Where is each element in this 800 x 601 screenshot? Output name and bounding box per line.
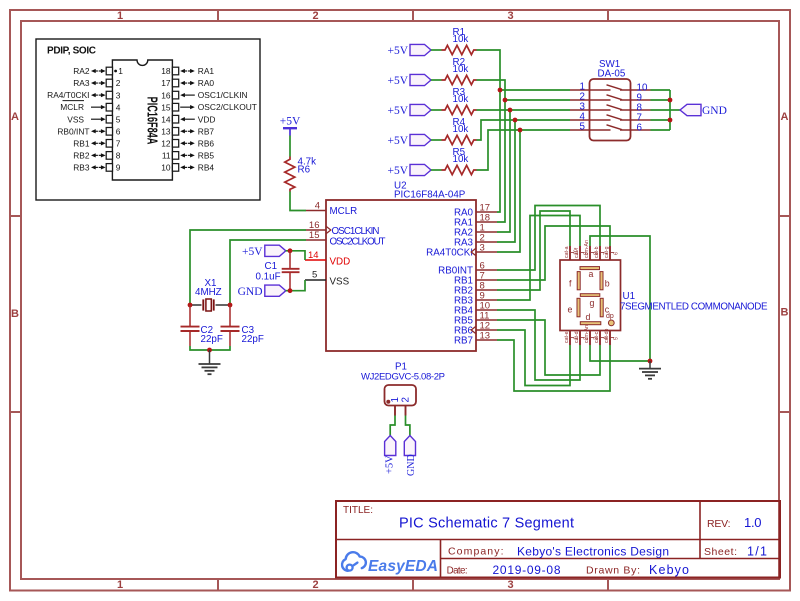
svg-text:cat-f: cat-f	[574, 247, 580, 258]
svg-text:Date:: Date:	[447, 566, 468, 577]
svg-text:B: B	[781, 307, 789, 319]
wire RA2 vertical	[497, 110, 510, 232]
svg-text:RB5: RB5	[198, 151, 215, 161]
svg-text:cat-b: cat-b	[594, 246, 600, 258]
svg-text:+5V: +5V	[242, 246, 263, 258]
+5V net flag (R2)	[387, 74, 431, 87]
wire RB1 to U1 cat-g	[497, 226, 610, 280]
svg-text:A: A	[11, 111, 19, 123]
wire R5 output	[477, 130, 571, 170]
wire R3 to SW1 pin 3 row	[477, 109, 571, 111]
svg-text:0.1uF: 0.1uF	[256, 272, 281, 283]
svg-text:4: 4	[315, 201, 320, 212]
svg-text:5: 5	[312, 270, 317, 281]
svg-text:22pF: 22pF	[242, 334, 264, 345]
U1 top pin 10 cat-a	[564, 246, 580, 260]
P1 pin 1	[390, 397, 401, 415]
U1 segment f	[569, 272, 580, 290]
svg-text:cat-dp: cat-dp	[604, 328, 610, 343]
U2 pin 6 RB0INT	[438, 261, 497, 277]
svg-text:RB7: RB7	[454, 336, 473, 347]
U1 top pin 7 cat-b	[594, 246, 610, 260]
svg-text:10k: 10k	[453, 124, 469, 135]
svg-text:22pF: 22pF	[201, 334, 223, 345]
svg-text:EasyEDA: EasyEDA	[368, 558, 438, 575]
svg-text:d: d	[586, 312, 591, 322]
svg-text:RA3: RA3	[73, 78, 90, 88]
U2 pin 17 RA0	[454, 203, 497, 219]
svg-text:+5V: +5V	[387, 135, 408, 147]
wire P1 pin2 to GND	[406, 416, 410, 436]
wire RB4 to U1 cat-d	[497, 310, 580, 380]
svg-text:PDIP, SOIC: PDIP, SOIC	[47, 46, 96, 57]
svg-text:PIC Schematic 7 Segment: PIC Schematic 7 Segment	[399, 516, 574, 532]
svg-text:C1: C1	[265, 261, 278, 272]
svg-text:WJ2EDGVC-5.08-2P: WJ2EDGVC-5.08-2P	[361, 372, 445, 383]
svg-text:7SEGMENTLED COMMONANODE: 7SEGMENTLED COMMONANODE	[620, 302, 768, 313]
wire RB0INT to U1 cat-b	[497, 206, 600, 271]
svg-text:com-An: com-An	[584, 325, 590, 343]
svg-text:14: 14	[161, 114, 171, 124]
svg-text:1: 1	[118, 66, 123, 76]
SW1 right pin numbers 10-6	[637, 83, 648, 134]
U1 bottom pin 3 com-An	[584, 325, 600, 345]
U1 segment c	[600, 298, 610, 317]
U1 top pin 6 cat-g	[604, 246, 620, 260]
junction dot crystal left	[188, 303, 193, 308]
wire OSC1CLKIN to crystal	[190, 230, 306, 304]
wire +5V to R1	[431, 49, 442, 51]
wire R4 output	[477, 120, 571, 140]
junction dot C1 top	[288, 248, 293, 253]
junction dots GND bus	[668, 98, 673, 123]
svg-text:a: a	[589, 269, 594, 279]
svg-text:4: 4	[116, 102, 121, 112]
svg-text:VSS: VSS	[330, 276, 350, 287]
U1 bottom pin 5 cat-dp	[604, 328, 620, 345]
svg-text:cat-c: cat-c	[594, 331, 600, 343]
+5V net flag (R4)	[387, 134, 431, 147]
resistor R2 10k	[442, 57, 477, 85]
svg-text:OSC1/CLKIN: OSC1/CLKIN	[198, 90, 248, 100]
svg-text:12: 12	[161, 139, 171, 149]
wire C2 C3 bottom	[190, 346, 230, 350]
svg-text:RA2: RA2	[73, 66, 90, 76]
svg-text:17: 17	[161, 78, 171, 88]
svg-text:cat-a: cat-a	[564, 246, 570, 258]
U2 pin 1 RA2	[454, 223, 497, 239]
svg-text:cat-e: cat-e	[564, 331, 570, 343]
U2 pin 18 RA1	[454, 213, 497, 229]
wire GND flag to VSS	[286, 280, 305, 291]
U2 pin 15 OSC2CLKOUT	[306, 230, 386, 247]
U1 reference labels	[620, 291, 768, 313]
svg-text:RB7: RB7	[198, 126, 215, 136]
+5V net flag (R3)	[387, 104, 431, 117]
svg-text:R6: R6	[298, 165, 311, 176]
junction dot anode ground	[648, 359, 653, 364]
svg-text:Kebyo's Electronics Design: Kebyo's Electronics Design	[517, 545, 669, 559]
svg-text:dp: dp	[606, 313, 614, 320]
svg-text:1: 1	[117, 10, 123, 22]
IC U2 PIC16F84A-04P	[326, 181, 476, 352]
svg-text:RA0: RA0	[198, 78, 215, 88]
svg-text:cat-g: cat-g	[604, 246, 610, 258]
U1 segment g	[580, 294, 600, 308]
connector P1 WJ2EDGVC-5.08-2P	[361, 362, 445, 406]
svg-text:RA4/T0CKI: RA4/T0CKI	[47, 90, 89, 100]
EasyEDA logo	[342, 552, 438, 575]
PIC16F84A package pinout diagram (PDIP, SOIC)	[36, 39, 260, 200]
svg-text:VDD: VDD	[198, 114, 216, 124]
svg-text:RA1: RA1	[198, 66, 215, 76]
wire P1 pin1 to +5V	[390, 416, 395, 436]
U1 bottom pin 4 cat-c	[594, 331, 610, 346]
svg-text:13: 13	[161, 126, 171, 136]
svg-text:B: B	[11, 308, 19, 320]
wire +5V flag to VDD	[286, 251, 305, 260]
svg-text:RB2: RB2	[73, 151, 90, 161]
svg-text:com-An: com-An	[584, 240, 590, 258]
resistor R4 10k	[442, 117, 477, 145]
svg-text:1/1: 1/1	[747, 545, 767, 559]
wire OSC2CLKOUT to crystal	[230, 240, 306, 304]
svg-text:RB1: RB1	[73, 138, 90, 148]
switch SW1 DA-05	[570, 59, 651, 141]
ground symbol (oscillator)	[199, 350, 221, 374]
svg-text:Sheet:: Sheet:	[704, 546, 737, 558]
svg-text:7: 7	[116, 139, 121, 149]
svg-text:MCLR: MCLR	[330, 206, 358, 217]
resistor R5 10k	[442, 147, 477, 175]
svg-text:6: 6	[614, 252, 620, 255]
wire RA4 vertical	[497, 130, 520, 252]
wire SW1 row2	[505, 99, 570, 101]
svg-text:15: 15	[309, 230, 320, 241]
svg-text:+5V: +5V	[387, 75, 408, 87]
+5V net flag (R1)	[387, 44, 431, 57]
svg-text:GND: GND	[702, 105, 727, 117]
svg-text:Drawn By:: Drawn By:	[586, 565, 640, 577]
wire R1 output	[477, 50, 501, 212]
U1 bottom pin 2 cat-d	[574, 331, 590, 346]
svg-text:2019-09-08: 2019-09-08	[493, 563, 561, 577]
svg-text:6: 6	[637, 123, 643, 134]
svg-text:18: 18	[161, 66, 171, 76]
svg-text:RB6: RB6	[198, 138, 215, 148]
+5V net flag (R5)	[387, 164, 431, 177]
svg-text:14: 14	[308, 250, 319, 261]
U1 segment d	[580, 312, 601, 325]
svg-text:10: 10	[161, 163, 171, 173]
U2 pin 12 RB6	[454, 321, 497, 337]
U2 pin 5 VSS	[305, 270, 350, 288]
P1 pin 2	[400, 397, 411, 415]
wire +5V to R2	[431, 79, 442, 81]
+5V power port (R6)	[280, 116, 301, 136]
svg-text:DA-05: DA-05	[598, 69, 626, 80]
wire +5V to R3	[431, 109, 442, 111]
svg-text:10k: 10k	[453, 34, 469, 45]
wire RB2 to U1 cat-a	[497, 211, 570, 290]
svg-text:A: A	[781, 111, 789, 123]
junction dot ground (oscillator)	[207, 348, 212, 353]
U1 top pin 8 com-An	[584, 240, 600, 260]
U2 pin 16 OSC1CLKIN	[306, 220, 380, 237]
+5V net flag (P1)	[385, 436, 396, 475]
svg-text:+5V: +5V	[385, 455, 396, 474]
svg-text:VSS: VSS	[67, 114, 84, 124]
svg-text:PIC16F84A: PIC16F84A	[144, 97, 161, 145]
wire RB6 to U1 cat-e	[497, 330, 570, 386]
U2 pin 13 RB7	[454, 331, 497, 347]
svg-text:MCLR: MCLR	[60, 102, 84, 112]
svg-text:1.0: 1.0	[744, 515, 762, 530]
svg-text:15: 15	[161, 102, 171, 112]
svg-text:+5V: +5V	[387, 105, 408, 117]
wires SW1 right side to GND bus	[651, 90, 681, 130]
svg-text:+5V: +5V	[387, 45, 408, 57]
svg-text:2: 2	[400, 397, 411, 402]
junction dots switch left column	[498, 88, 523, 133]
svg-text:3: 3	[116, 90, 121, 100]
U1 top pin 9 cat-f	[574, 246, 590, 260]
U2 pin 11 RB5	[454, 311, 497, 327]
capacitor C2 22pF	[181, 305, 223, 346]
svg-text:4MHZ: 4MHZ	[195, 287, 222, 298]
svg-text:PIC16F84A-04P: PIC16F84A-04P	[394, 190, 466, 201]
svg-text:U1: U1	[623, 291, 636, 302]
capacitor C1 0.1uF	[256, 251, 300, 291]
svg-text:16: 16	[161, 90, 171, 100]
svg-text:1: 1	[390, 397, 401, 402]
svg-text:+5V: +5V	[280, 116, 301, 128]
svg-text:3: 3	[480, 243, 485, 254]
wire SW1 row1	[500, 89, 570, 91]
U2 pin 10 RB4	[454, 301, 497, 317]
wire RB5 to U1 cat-c	[497, 320, 600, 375]
wire RA3 vertical	[497, 120, 515, 242]
svg-text:2: 2	[116, 78, 121, 88]
crystal X1 4MHZ	[191, 278, 229, 311]
svg-text:5: 5	[580, 121, 586, 132]
+5V net flag (C1/VDD)	[242, 245, 286, 258]
title block	[336, 501, 780, 578]
GND net flag (SW1)	[680, 104, 727, 117]
U1 segment b	[600, 272, 610, 290]
GND net flag (C1/VSS)	[238, 285, 286, 298]
svg-text:REV:: REV:	[707, 518, 731, 530]
svg-text:1: 1	[117, 579, 123, 591]
svg-text:RA4T0CKI: RA4T0CKI	[426, 248, 473, 259]
svg-text:RB0/INT: RB0/INT	[57, 126, 89, 136]
U2 pin 4 MCLR	[306, 201, 357, 218]
svg-text:5: 5	[614, 337, 620, 340]
U2 pin 9 RB3	[454, 291, 497, 307]
svg-text:10k: 10k	[453, 154, 469, 165]
svg-text:OSC1CLKIN: OSC1CLKIN	[332, 226, 380, 237]
wire R6 to MCLR	[290, 192, 306, 211]
svg-text:3: 3	[507, 10, 513, 22]
U1 segment a	[580, 267, 600, 279]
svg-text:VDD: VDD	[330, 256, 351, 267]
U1 segment dp	[606, 313, 614, 326]
junction dot C1 bottom	[288, 288, 293, 293]
7-segment display U1	[560, 260, 621, 331]
wire +5V to R4	[431, 139, 442, 141]
svg-text:9: 9	[116, 163, 121, 173]
resistor R3 10k	[442, 87, 477, 115]
svg-text:Company:: Company:	[448, 546, 504, 558]
svg-text:+5V: +5V	[387, 165, 408, 177]
wire +5V to R6	[289, 136, 291, 157]
svg-text:g: g	[590, 298, 595, 308]
svg-text:Kebyo: Kebyo	[649, 563, 689, 577]
svg-text:OSC2CLKOUT: OSC2CLKOUT	[330, 236, 386, 247]
ground symbol (U1 anode)	[639, 361, 661, 379]
wire RB7 to U1 cat-dp	[497, 340, 610, 391]
GND net flag (P1)	[404, 436, 417, 477]
wire +5V to R5	[431, 169, 442, 171]
svg-text:10k: 10k	[453, 64, 469, 75]
svg-text:GND: GND	[238, 286, 263, 298]
capacitor C3 22pF	[221, 305, 264, 346]
resistor R6 4.7k	[285, 157, 316, 192]
SW1 left pin numbers 1-5	[580, 81, 586, 132]
svg-text:6: 6	[116, 126, 121, 136]
svg-text:OSC2/CLKOUT: OSC2/CLKOUT	[198, 102, 257, 112]
U2 pin 7 RB1	[454, 271, 497, 287]
svg-text:RB3: RB3	[73, 163, 90, 173]
U2 pin 2 RA3	[454, 233, 497, 249]
U1 segment e	[568, 298, 581, 317]
svg-text:11: 11	[162, 151, 171, 161]
wire U1 common anode top to ground	[590, 236, 650, 361]
wire U1 common anode bottom to ground	[590, 345, 650, 361]
svg-text:b: b	[605, 279, 610, 289]
U2 pin 8 RB2	[454, 281, 497, 297]
svg-text:13: 13	[480, 331, 491, 342]
svg-text:GND: GND	[406, 454, 417, 476]
svg-text:2: 2	[312, 579, 318, 591]
resistor R1 10k	[442, 27, 477, 55]
svg-text:TITLE:: TITLE:	[343, 505, 373, 516]
junction dot crystal right	[228, 303, 233, 308]
svg-text:8: 8	[116, 151, 121, 161]
svg-text:cat-d: cat-d	[574, 331, 580, 343]
wire R2 output	[477, 80, 506, 222]
svg-text:10k: 10k	[453, 94, 469, 105]
svg-text:5: 5	[116, 114, 121, 124]
U1 bottom pin 1 cat-e	[564, 331, 580, 346]
svg-text:3: 3	[507, 579, 513, 591]
U2 pin 14 VDD	[305, 250, 350, 267]
wire RB3 to U1 cat-f	[497, 216, 580, 301]
svg-text:e: e	[568, 305, 573, 315]
svg-text:2: 2	[312, 10, 318, 22]
svg-text:RB4: RB4	[198, 163, 215, 173]
U2 pin 3 RA4T0CKI	[426, 243, 497, 259]
